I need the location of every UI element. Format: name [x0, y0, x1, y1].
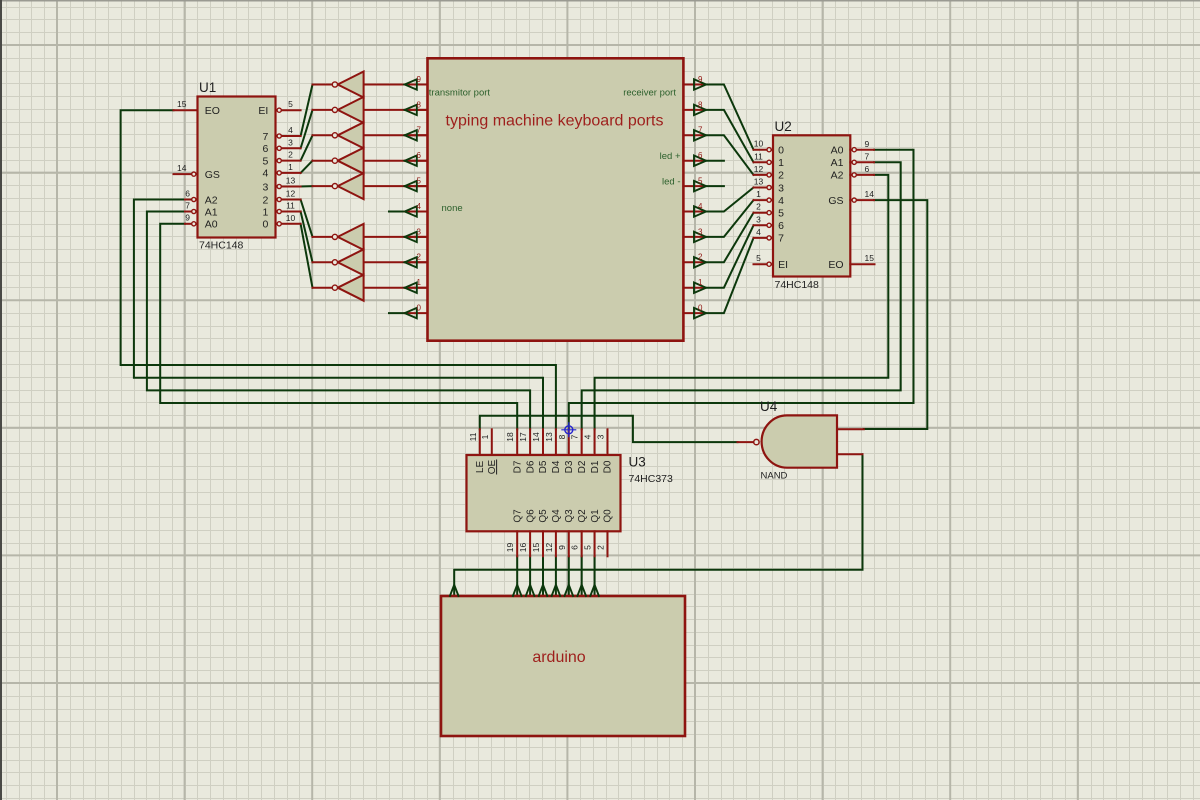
svg-text:receiver port: receiver port — [623, 87, 676, 98]
wire U1 pin4 to inverter G4 — [301, 161, 313, 173]
wire keyboard port row 0 to U2 pin 7 — [706, 238, 753, 313]
svg-text:10: 10 — [286, 213, 296, 223]
svg-text:4: 4 — [262, 168, 268, 180]
svg-text:16: 16 — [518, 543, 528, 553]
svg-text:12: 12 — [544, 543, 554, 553]
svg-text:14: 14 — [177, 163, 187, 173]
svg-text:Q6: Q6 — [525, 509, 536, 523]
svg-text:7: 7 — [185, 200, 190, 210]
inverter G3 — [313, 122, 428, 148]
svg-text:Q3: Q3 — [564, 509, 575, 523]
svg-text:5: 5 — [756, 253, 761, 263]
svg-text:Q1: Q1 — [590, 509, 601, 523]
svg-text:10: 10 — [754, 139, 764, 149]
svg-text:9: 9 — [865, 139, 870, 149]
svg-text:6: 6 — [185, 188, 190, 198]
svg-text:A2: A2 — [205, 194, 218, 206]
svg-text:0: 0 — [262, 219, 268, 231]
svg-text:2: 2 — [288, 150, 293, 160]
wire U1.A1 to U3.D6 — [147, 212, 530, 430]
svg-text:0: 0 — [417, 304, 422, 313]
svg-text:74HC148: 74HC148 — [199, 240, 244, 252]
svg-text:D6: D6 — [525, 460, 536, 473]
keyboard box right pin stubs — [683, 84, 703, 86]
keyboard box right port arrows — [694, 79, 706, 89]
svg-text:8: 8 — [557, 434, 567, 439]
wire keyboard port row 4 to U2 pin 3 — [706, 188, 753, 212]
svg-text:12: 12 — [286, 189, 296, 199]
U2 right pin stubs — [850, 149, 874, 151]
svg-text:5: 5 — [583, 545, 593, 550]
svg-text:led +: led + — [660, 151, 681, 162]
U3 bottom pin stubs Q7-Q0 — [516, 531, 518, 556]
svg-text:8: 8 — [698, 100, 703, 109]
svg-text:D3: D3 — [564, 460, 575, 473]
svg-text:15: 15 — [865, 253, 875, 263]
U1 left pin circles — [192, 172, 196, 176]
svg-text:3: 3 — [262, 181, 268, 193]
wire U3.Q6 to arduino — [529, 556, 531, 596]
canvas left edge — [0, 0, 2, 800]
inverter G2 — [313, 97, 428, 123]
svg-text:5: 5 — [778, 208, 784, 220]
svg-text:13: 13 — [544, 432, 554, 442]
U2 right pin circles — [852, 148, 856, 152]
svg-text:A0: A0 — [831, 145, 844, 157]
svg-text:Q0: Q0 — [603, 509, 614, 523]
svg-text:6: 6 — [417, 151, 422, 160]
svg-text:A1: A1 — [205, 206, 218, 218]
svg-text:15: 15 — [531, 543, 541, 553]
U1 pin EI stub (pin 5) — [277, 109, 301, 111]
svg-text:D0: D0 — [603, 460, 614, 473]
U4 output pin stub — [738, 441, 754, 443]
svg-text:3: 3 — [778, 182, 784, 194]
U1 pin GS stub (pin 14) — [174, 173, 198, 175]
svg-text:9: 9 — [698, 75, 703, 84]
svg-text:1: 1 — [262, 206, 268, 218]
svg-text:3: 3 — [417, 227, 422, 236]
wire U3.Q2 to arduino — [581, 556, 583, 596]
wire U1 pin2 to inverter G6 — [301, 200, 313, 237]
wire keyboard port row 3 to U2 pin 4 — [706, 200, 753, 237]
svg-text:2: 2 — [417, 253, 422, 262]
svg-text:EI: EI — [258, 105, 268, 117]
canvas top edge — [0, 0, 1200, 2]
U2 left pin stubs — [754, 149, 774, 151]
svg-text:2: 2 — [262, 194, 268, 206]
U1 pin A0 stub — [185, 223, 198, 225]
svg-text:4: 4 — [583, 434, 593, 439]
svg-text:7: 7 — [865, 152, 870, 162]
svg-text:EO: EO — [828, 259, 843, 271]
U3 top pin stubs LE OE D7-D0 — [479, 429, 481, 455]
svg-text:led -: led - — [662, 176, 680, 187]
U1 right pin circles — [277, 108, 281, 112]
svg-text:11: 11 — [286, 201, 295, 211]
svg-text:none: none — [442, 203, 463, 214]
svg-text:D1: D1 — [590, 460, 601, 473]
wire keyboard port row 8 to U2 pin 1 — [706, 110, 753, 162]
wire keyboard port row 1 to U2 pin 6 — [706, 225, 753, 287]
svg-text:5: 5 — [288, 99, 293, 109]
U4 input pin stubs — [837, 428, 864, 430]
svg-text:14: 14 — [865, 189, 875, 199]
svg-text:GS: GS — [828, 195, 843, 207]
svg-text:GS: GS — [205, 169, 220, 181]
keyboard box left port arrows — [405, 79, 417, 89]
svg-text:U3: U3 — [629, 455, 646, 470]
svg-text:74HC148: 74HC148 — [775, 279, 820, 291]
svg-text:transmitor port: transmitor port — [429, 87, 491, 98]
wire keyboard port row 9 to U2 pin 0 — [706, 85, 753, 150]
svg-text:3: 3 — [756, 214, 761, 224]
svg-text:1: 1 — [756, 189, 761, 199]
U1 pin EO stub (pin 15) — [174, 109, 198, 111]
svg-text:D2: D2 — [577, 460, 588, 473]
svg-text:D7: D7 — [512, 460, 523, 473]
svg-text:11: 11 — [468, 432, 478, 441]
svg-text:EO: EO — [205, 105, 220, 117]
svg-text:17: 17 — [518, 432, 528, 442]
svg-text:1: 1 — [480, 434, 490, 439]
wire U1 pin1 to inverter G7 — [301, 212, 313, 263]
svg-text:D4: D4 — [551, 460, 562, 473]
wire stub led+ (row 6) — [706, 160, 724, 162]
svg-text:5: 5 — [417, 177, 422, 186]
svg-text:A1: A1 — [831, 157, 844, 169]
U1 right pin stubs pins 7..0 — [277, 135, 301, 137]
svg-text:7: 7 — [262, 131, 268, 143]
svg-text:19: 19 — [505, 543, 515, 553]
svg-text:1: 1 — [417, 278, 422, 287]
svg-text:7: 7 — [698, 126, 703, 135]
svg-text:Q7: Q7 — [512, 509, 523, 523]
svg-text:2: 2 — [698, 253, 703, 262]
svg-text:6: 6 — [570, 545, 580, 550]
wire U1 pin6 to inverter G2 — [301, 110, 313, 148]
arduino input arrows — [450, 585, 459, 596]
svg-text:A2: A2 — [831, 170, 844, 182]
wire U1 pin5 to inverter G3 — [301, 135, 313, 160]
wire U3.Q7 to arduino — [516, 556, 518, 596]
svg-text:6: 6 — [865, 164, 870, 174]
IC U2 74HC148 body — [773, 135, 850, 276]
svg-text:2: 2 — [756, 202, 761, 212]
svg-text:U1: U1 — [199, 80, 216, 95]
svg-text:1: 1 — [288, 162, 293, 172]
svg-text:EI: EI — [778, 259, 788, 271]
U1 pin A2 stub — [185, 199, 198, 201]
svg-text:7: 7 — [417, 126, 422, 135]
svg-text:Q5: Q5 — [538, 509, 549, 523]
svg-text:D5: D5 — [538, 460, 549, 473]
svg-text:typing machine keyboard ports: typing machine keyboard ports — [446, 113, 664, 130]
svg-text:Q4: Q4 — [551, 509, 562, 523]
svg-text:4: 4 — [756, 227, 761, 237]
wire U1.A0 to U3.D7 — [160, 224, 517, 429]
wire U1.EO to U3.D4 (net EO1) — [121, 110, 556, 429]
svg-text:2: 2 — [778, 170, 784, 182]
IC U3 74HC373 body — [467, 455, 621, 531]
wire stub row 0 — [389, 312, 405, 314]
svg-text:3: 3 — [596, 434, 606, 439]
svg-text:9: 9 — [417, 75, 422, 84]
wire keyboard port row 2 to U2 pin 5 — [706, 213, 753, 263]
wire U3.Q3 to arduino — [568, 556, 570, 596]
wire U3.Q4 to arduino — [555, 556, 557, 596]
wire U2.GS to U4 input A — [864, 200, 928, 429]
wire U2.A1 to U3.D2 — [582, 162, 901, 429]
U4 output bubble — [754, 439, 759, 444]
wire keyboard port row 7 to U2 pin 2 — [706, 135, 753, 175]
svg-text:2: 2 — [596, 545, 606, 550]
svg-text:9: 9 — [185, 213, 190, 223]
svg-text:NAND: NAND — [761, 471, 788, 482]
svg-text:4: 4 — [417, 202, 422, 211]
inverter G5 — [313, 173, 428, 199]
svg-text:6: 6 — [262, 143, 268, 155]
inverter G1 — [313, 72, 428, 98]
svg-text:arduino: arduino — [532, 649, 585, 666]
svg-text:4: 4 — [288, 125, 293, 135]
U2 left pin circles — [767, 148, 771, 152]
svg-text:A0: A0 — [205, 219, 218, 231]
wire U2.A0 to U3.D3 — [569, 150, 914, 430]
svg-text:13: 13 — [754, 177, 764, 187]
keyboard ports box body — [428, 58, 684, 340]
svg-text:14: 14 — [531, 432, 541, 442]
IC U1 74HC148 body — [198, 97, 276, 238]
svg-text:Q2: Q2 — [577, 509, 588, 523]
svg-text:LE: LE — [475, 461, 486, 474]
svg-text:15: 15 — [177, 99, 187, 109]
svg-text:3: 3 — [698, 227, 703, 236]
svg-text:11: 11 — [754, 151, 763, 161]
svg-text:12: 12 — [754, 164, 764, 174]
inverter G7 — [313, 249, 428, 275]
svg-text:6: 6 — [698, 151, 703, 160]
svg-text:1: 1 — [778, 157, 784, 169]
arduino module body — [441, 596, 685, 736]
svg-text:7: 7 — [778, 233, 784, 245]
wire U2.A2 to U3.D1 — [595, 175, 889, 429]
origin marker node at U3.D3 — [561, 422, 576, 437]
inverter G4 — [313, 148, 428, 174]
inverter G8 — [313, 275, 428, 301]
svg-text:1: 1 — [698, 278, 703, 287]
wire U4 input B to arduino pin — [454, 454, 862, 596]
svg-text:5: 5 — [262, 155, 268, 167]
keyboard box left pin stubs — [405, 84, 428, 86]
wire U1.A2 to U3.D5 — [134, 200, 543, 430]
wire stub none (row 4) — [389, 211, 405, 213]
svg-text:U4: U4 — [760, 399, 778, 414]
svg-text:4: 4 — [778, 195, 784, 207]
wire U1 pin7 to inverter G1 — [301, 85, 313, 137]
svg-text:7: 7 — [570, 434, 580, 439]
inverter G6 — [313, 224, 428, 250]
svg-text:13: 13 — [286, 176, 296, 186]
svg-text:4: 4 — [698, 202, 703, 211]
wire U3.Q5 to arduino — [542, 556, 544, 596]
svg-text:74HC373: 74HC373 — [629, 473, 674, 485]
svg-text:3: 3 — [288, 137, 293, 147]
wire U1 pin3 to inverter G5 — [301, 185, 313, 187]
svg-text:5: 5 — [698, 177, 703, 186]
wire stub led- (row 5) — [706, 185, 724, 187]
wire U3.Q1 to arduino — [594, 556, 596, 596]
wire U1 pin0 to inverter G8 — [301, 224, 313, 288]
svg-text:OE: OE — [487, 459, 498, 474]
svg-text:18: 18 — [505, 432, 515, 442]
U1 pin A1 stub — [185, 211, 198, 213]
svg-text:9: 9 — [557, 545, 567, 550]
wire U4 output to U3.LE — [480, 416, 738, 442]
svg-text:6: 6 — [778, 220, 784, 232]
svg-text:8: 8 — [417, 100, 422, 109]
svg-text:0: 0 — [778, 145, 784, 157]
svg-text:0: 0 — [698, 304, 703, 313]
gate U4 NAND body (mirrored) — [762, 415, 837, 467]
svg-text:U2: U2 — [775, 119, 792, 134]
